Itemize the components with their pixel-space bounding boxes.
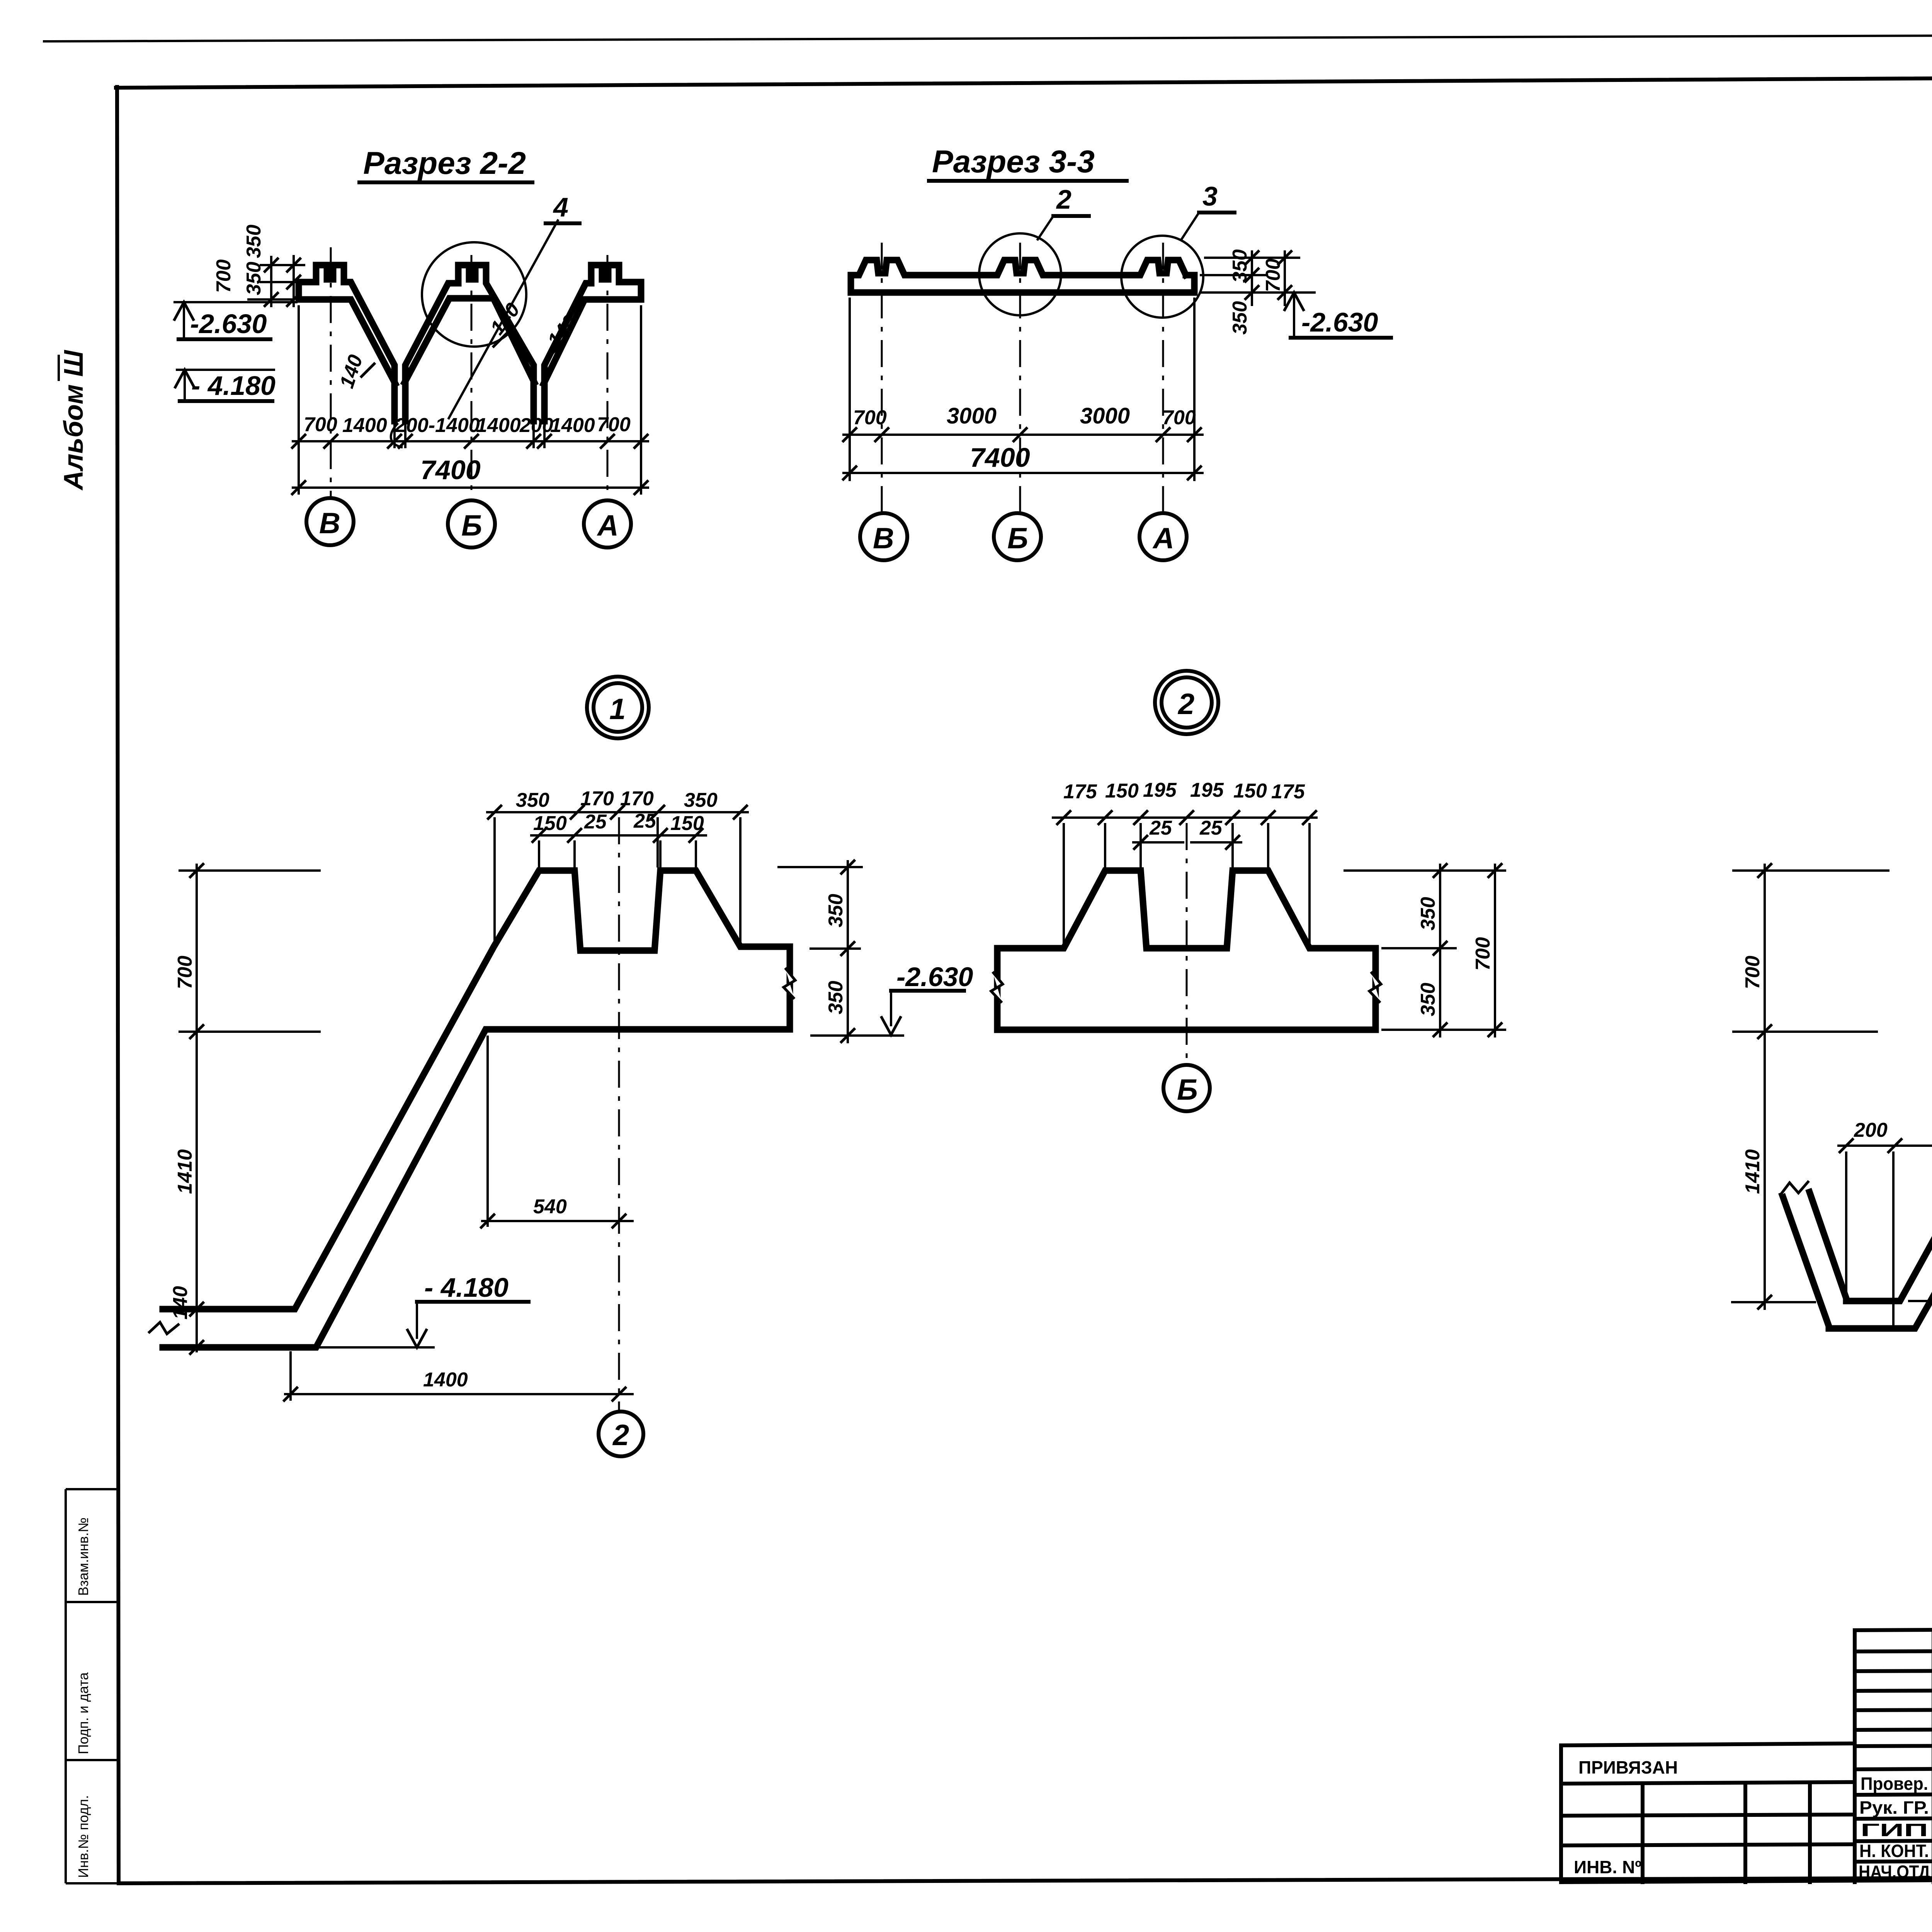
svg-text:Разрез 2-2: Разрез 2-2 <box>363 146 526 181</box>
svg-text:195: 195 <box>1143 779 1177 801</box>
svg-text:1400: 1400 <box>342 414 387 437</box>
svg-text:140: 140 <box>169 1286 192 1320</box>
profile slab <box>851 275 1194 293</box>
dim line row1 <box>486 811 749 813</box>
svg-text:Подп. и дата: Подп. и дата <box>75 1672 91 1754</box>
grid line V <box>881 243 883 513</box>
detail bubble 2 (double circle) <box>1155 671 1218 734</box>
svg-text:Рук. ГР.: Рук. ГР. <box>1859 1798 1929 1818</box>
svg-text:3000: 3000 <box>1080 403 1130 429</box>
svg-text:200-1400: 200-1400 <box>395 414 480 437</box>
svg-text:4: 4 <box>553 192 568 222</box>
profile outer surface: trough, ramp, bumps, right cut <box>1810 871 1932 1301</box>
bottom line of title block <box>1561 1876 1932 1882</box>
profile: ramp, bumps and slab <box>163 871 790 1347</box>
svg-text:700: 700 <box>853 406 887 429</box>
svg-text:170: 170 <box>620 787 654 810</box>
svg-text:700: 700 <box>213 259 235 293</box>
left dim 700 / 1410 <box>1732 869 1889 872</box>
ext lines to profile left <box>260 264 305 266</box>
svg-text:Н. КОНТ.: Н. КОНТ. <box>1859 1841 1929 1861</box>
title underline <box>359 180 532 184</box>
svg-text:350: 350 <box>1229 301 1251 335</box>
right dims 350 350 700 <box>1344 869 1506 872</box>
svg-text:А: А <box>597 509 619 542</box>
centerline <box>618 817 620 1410</box>
svg-text:ПРИВЯЗАН: ПРИВЯЗАН <box>1578 1757 1678 1777</box>
extension line left edge <box>298 305 300 495</box>
svg-text:700: 700 <box>1472 937 1494 971</box>
svg-text:150: 150 <box>1105 780 1139 802</box>
svg-text:Альбом Ш: Альбом Ш <box>58 350 88 491</box>
grid line B <box>1019 243 1021 513</box>
extension line right edge <box>640 305 642 495</box>
leader circle of detail 4 <box>422 242 526 347</box>
svg-text:Б: Б <box>461 509 482 542</box>
svg-text:3000: 3000 <box>947 403 997 429</box>
frame bottom line <box>119 1876 1932 1883</box>
svg-text:350: 350 <box>825 981 847 1014</box>
svg-text:350: 350 <box>1417 897 1439 930</box>
grid bubble B <box>1163 1065 1210 1111</box>
grid bubble 2 <box>599 1412 643 1456</box>
svg-text:540: 540 <box>533 1196 567 1218</box>
svg-text:350: 350 <box>243 262 265 295</box>
dim line 2 <box>292 486 649 489</box>
right dims 350 350 700 <box>1204 257 1300 259</box>
svg-text:А: А <box>1152 522 1174 555</box>
grid line B <box>471 255 473 500</box>
svg-text:1400: 1400 <box>476 414 521 437</box>
dim line 1 <box>842 434 1204 436</box>
extension right <box>1193 298 1196 481</box>
extension stem lines <box>393 421 396 448</box>
svg-text:Провер.: Провер. <box>1861 1774 1928 1794</box>
detail circle 3 <box>1121 236 1203 318</box>
extension left <box>849 298 851 481</box>
svg-text:Б: Б <box>1007 522 1028 555</box>
svg-text:200: 200 <box>519 414 553 437</box>
svg-text:ИНВ. Nº: ИНВ. Nº <box>1574 1857 1641 1877</box>
left dim 700 / 1410 / 140 <box>179 869 321 872</box>
extension verticals for 200 <box>1845 1151 1847 1298</box>
frame top line <box>116 74 1932 88</box>
profile top with three bumps <box>851 260 1186 275</box>
svg-text:700: 700 <box>174 956 196 989</box>
svg-text:- 4.180: - 4.180 <box>191 371 276 401</box>
svg-text:1400: 1400 <box>423 1369 468 1391</box>
profile slab with two bumps <box>997 871 1376 1030</box>
dim line 200/1400 <box>1837 1145 1932 1147</box>
svg-text:200: 200 <box>1854 1119 1888 1141</box>
svg-text:350: 350 <box>684 789 718 811</box>
svg-text:В: В <box>873 522 894 555</box>
outer top line <box>43 33 1932 41</box>
svg-text:170: 170 <box>580 787 614 810</box>
grid bubble V <box>306 498 354 545</box>
svg-text:150: 150 <box>1233 780 1267 802</box>
svg-text:350: 350 <box>825 894 847 927</box>
dim line row2 <box>530 834 707 837</box>
svg-text:- 4.180: - 4.180 <box>424 1272 509 1303</box>
svg-text:700: 700 <box>1162 406 1196 429</box>
svg-text:Взам.инв.№: Взам.инв.№ <box>75 1517 91 1596</box>
svg-text:1410: 1410 <box>174 1149 196 1194</box>
svg-text:700: 700 <box>1742 956 1764 989</box>
title underline <box>929 179 1127 183</box>
svg-text:-2.630: -2.630 <box>190 309 267 339</box>
left stamp boxes <box>66 1489 119 1883</box>
dim line row1 <box>1052 816 1318 819</box>
svg-text:-2.630: -2.630 <box>896 962 973 992</box>
elevation -2.630 right <box>1284 293 1304 311</box>
right dims 350 350 <box>777 866 863 868</box>
svg-text:Инв.№ подл.: Инв.№ подл. <box>75 1795 91 1878</box>
elevation -4.180 <box>176 369 275 371</box>
svg-text:700: 700 <box>1262 259 1284 292</box>
svg-text:350: 350 <box>243 224 265 258</box>
leader line to label 4 <box>448 219 558 419</box>
profile inner surface <box>1782 1028 1932 1328</box>
extension verticals from dims to bumps <box>493 817 496 943</box>
dim 140 at trough <box>1908 1300 1932 1302</box>
svg-text:700: 700 <box>597 413 631 436</box>
svg-text:700: 700 <box>304 413 337 436</box>
svg-text:Б: Б <box>1177 1073 1198 1106</box>
svg-text:195: 195 <box>1190 779 1224 801</box>
grid line V <box>330 247 332 498</box>
grid bubble B <box>448 500 495 548</box>
centerline <box>1186 823 1188 1066</box>
left vertical dim lines 700/350/350 <box>270 256 272 307</box>
profile bottom surface <box>299 282 395 384</box>
svg-text:7400: 7400 <box>420 455 481 485</box>
svg-text:25: 25 <box>633 810 656 832</box>
leader line 2 <box>1037 216 1053 240</box>
svg-text:175: 175 <box>1271 781 1305 803</box>
grid bubble A <box>1139 513 1187 560</box>
svg-text:3: 3 <box>1202 181 1218 211</box>
svg-text:350: 350 <box>1417 983 1439 1016</box>
svg-text:350: 350 <box>516 789 549 811</box>
grid bubble B <box>994 513 1041 560</box>
svg-text:25: 25 <box>584 811 607 833</box>
left table frame <box>1561 1743 1855 1882</box>
svg-text:-2.630: -2.630 <box>1301 307 1378 337</box>
grid line A <box>607 255 609 500</box>
break mark at foot left <box>148 1322 179 1334</box>
leader line 3 <box>1181 213 1199 240</box>
profile top surface (W shape with castellations) <box>299 265 395 421</box>
svg-text:175: 175 <box>1063 781 1097 803</box>
elevation -2.630 <box>173 301 298 303</box>
svg-text:25: 25 <box>1149 817 1172 839</box>
dim line 2 <box>842 472 1204 474</box>
svg-text:7400: 7400 <box>970 442 1030 473</box>
svg-text:25: 25 <box>1199 817 1223 839</box>
grid bubble A <box>584 500 631 548</box>
leader curve from stem to dim text <box>391 423 403 447</box>
detail bubble 1 (double circle) <box>587 677 649 738</box>
svg-text:150: 150 <box>533 812 567 835</box>
svg-text:350: 350 <box>1229 249 1251 283</box>
break mark at trough arm top <box>1778 1179 1811 1196</box>
detail circle 2 <box>979 233 1061 315</box>
svg-text:2: 2 <box>1177 688 1194 721</box>
svg-text:2: 2 <box>612 1419 629 1452</box>
break marks on edges <box>991 972 1003 1003</box>
svg-text:ГИП: ГИП <box>1861 1820 1928 1840</box>
svg-text:1410: 1410 <box>1742 1149 1764 1194</box>
break mark on right edge <box>784 968 795 999</box>
grid line A <box>1162 243 1164 513</box>
svg-text:1400: 1400 <box>550 414 595 437</box>
frame left line <box>117 87 119 1883</box>
svg-text:В: В <box>319 507 340 540</box>
dim line 1 <box>292 440 649 442</box>
svg-text:Разрез 3-3: Разрез 3-3 <box>932 144 1095 179</box>
svg-text:1: 1 <box>609 693 626 726</box>
grid bubble V <box>860 513 907 560</box>
central table frame <box>1855 1629 1932 1882</box>
svg-text:2: 2 <box>1056 184 1071 214</box>
extension verticals <box>1063 823 1065 945</box>
